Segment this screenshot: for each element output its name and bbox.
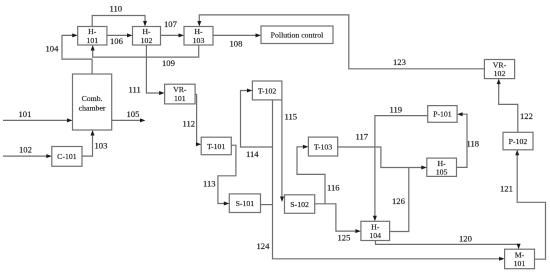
svg-text:102: 102 — [141, 36, 153, 45]
svg-text:102: 102 — [494, 69, 506, 78]
svg-text:103: 103 — [193, 36, 205, 45]
svg-text:121: 121 — [500, 184, 513, 194]
svg-text:113: 113 — [203, 178, 216, 188]
svg-text:103: 103 — [95, 140, 108, 150]
svg-text:115: 115 — [285, 112, 298, 122]
svg-text:109: 109 — [162, 58, 175, 68]
svg-text:H-: H- — [194, 27, 203, 36]
svg-text:S-102: S-102 — [290, 200, 309, 209]
stream 125 wire: S-102 to H-104 — [315, 204, 361, 243]
svg-text:T-102: T-102 — [258, 86, 276, 95]
stream 112 wire: VR-101 to T-101 — [183, 95, 202, 147]
svg-text:C-101: C-101 — [57, 152, 77, 161]
heater H-105 — [427, 158, 457, 177]
heater H-102 — [133, 27, 161, 46]
pump P-101 — [428, 106, 457, 123]
pump P-102 — [503, 132, 533, 150]
svg-text:T-103: T-103 — [314, 143, 332, 152]
svg-text:104: 104 — [369, 231, 381, 240]
stream 124 wire: T-102 bottoms down and across to M-101 — [257, 100, 505, 261]
svg-text:P-102: P-102 — [509, 137, 528, 146]
svg-text:108: 108 — [230, 39, 243, 49]
svg-text:125: 125 — [338, 233, 351, 243]
stream 122 wire: P-102 top to VR-102 bottom — [497, 79, 533, 133]
svg-text:126: 126 — [392, 196, 406, 206]
vapor recovery VR-102 — [484, 60, 514, 79]
combustion chamber — [73, 74, 112, 130]
stream 107 wire: H-102 to H-103 — [161, 19, 185, 37]
svg-text:VR-: VR- — [173, 85, 187, 94]
stream 105 wire: combustion chamber outlet — [112, 109, 146, 122]
svg-text:H-: H- — [437, 159, 446, 168]
svg-text:102: 102 — [19, 145, 32, 155]
svg-text:VR-: VR- — [493, 60, 507, 69]
svg-text:119: 119 — [390, 104, 403, 114]
heater H-103 — [184, 27, 213, 46]
svg-text:H-: H- — [142, 27, 151, 36]
stream 117 wire: T-103 to H-105 — [338, 132, 427, 170]
svg-text:104: 104 — [46, 43, 60, 53]
separator S-102 — [285, 195, 315, 214]
svg-text:116: 116 — [327, 182, 340, 192]
mixer M-101 — [505, 249, 535, 269]
separator S-101 — [229, 194, 260, 213]
stream 109 wire: H-103 bottom recycle to H-101 bottom — [91, 45, 199, 68]
svg-text:chamber: chamber — [79, 104, 106, 113]
svg-text:T-101: T-101 — [207, 142, 225, 151]
svg-text:107: 107 — [164, 19, 178, 29]
stream 118 wire: H-105 to P-101 — [457, 112, 480, 167]
heater H-101 — [78, 27, 107, 46]
svg-text:111: 111 — [129, 84, 141, 94]
svg-text:101: 101 — [514, 259, 526, 268]
tower T-103 — [308, 137, 337, 156]
wire: S-101 outlet joining stream 124 — [261, 204, 273, 206]
stream 102 wire: air feed into C-101 — [3, 145, 52, 158]
svg-text:101: 101 — [19, 109, 32, 119]
stream 123 wire: VR-102 recycle to H-103 top — [197, 15, 484, 69]
svg-text:120: 120 — [459, 234, 472, 244]
svg-text:123: 123 — [393, 57, 406, 67]
svg-text:122: 122 — [520, 111, 533, 121]
svg-text:H-: H- — [88, 27, 97, 36]
stream 115 wire: T-102 bottom right to S-102 top — [280, 100, 297, 202]
stream 119 wire: P-101 down into H-104 top — [373, 104, 428, 221]
stream 108 wire: H-103 to pollution control — [213, 33, 261, 48]
stream 110 wire: H-101 top to H-102 top — [92, 4, 147, 27]
tower T-101 — [201, 137, 231, 155]
svg-text:114: 114 — [246, 149, 259, 159]
svg-text:105: 105 — [436, 168, 448, 177]
heater H-104 — [361, 221, 390, 240]
svg-text:Pollution control: Pollution control — [271, 30, 324, 39]
stream 113 wire: T-101 to S-101 — [203, 145, 236, 205]
svg-text:112: 112 — [183, 119, 196, 129]
stream 114 wire: bottoms line branch up into T-102 — [241, 89, 273, 160]
svg-text:H-: H- — [371, 222, 380, 231]
tower T-102 — [252, 81, 282, 100]
svg-text:101: 101 — [86, 36, 98, 45]
stream 126 wire: H-104 outlet up joining H-105 inlet — [390, 168, 409, 232]
svg-text:P-101: P-101 — [433, 110, 452, 119]
svg-text:Comb.: Comb. — [82, 94, 103, 103]
svg-text:S-101: S-101 — [236, 199, 255, 208]
stream 103 wire: C-101 to combustion chamber bottom — [82, 130, 107, 156]
stream 121 wire: M-101 right up into P-102 bottom — [500, 150, 546, 259]
svg-text:118: 118 — [467, 139, 480, 149]
svg-text:124: 124 — [257, 241, 271, 251]
stream 116 wire: branch from S-102 outlet up into T-103 — [297, 145, 340, 204]
stream 101 wire: feed into combustion chamber — [3, 109, 73, 122]
pollution control unit — [261, 26, 333, 44]
stream 120 wire: H-104 bottom to M-101 top — [376, 234, 521, 250]
svg-text:105: 105 — [127, 109, 140, 119]
stream 106 wire: H-101 to H-102 — [107, 33, 133, 46]
svg-text:110: 110 — [110, 4, 123, 14]
stream 111 wire: H-102 bottom to VR-101 — [129, 45, 165, 95]
stream 104 wire: combustion chamber top to H-101 left — [46, 33, 93, 74]
svg-text:106: 106 — [110, 36, 124, 46]
svg-text:101: 101 — [174, 94, 186, 103]
vapor recovery VR-101 — [165, 84, 196, 104]
svg-text:117: 117 — [356, 132, 369, 142]
compressor C-101 — [52, 147, 82, 167]
svg-text:M-: M- — [515, 250, 525, 259]
